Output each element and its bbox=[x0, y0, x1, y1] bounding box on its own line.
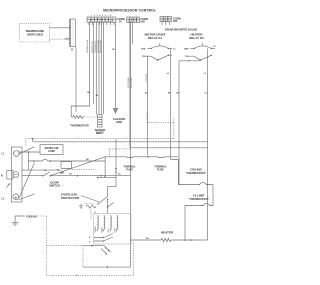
svg-text:FUSE: FUSE bbox=[157, 169, 164, 172]
wire K1 NO down bbox=[170, 49, 172, 160]
wire from J4 pin8 down to chassis ground bbox=[115, 22, 117, 108]
svg-text:RELAY K2: RELAY K2 bbox=[189, 36, 204, 40]
wire K2 common down bbox=[179, 60, 200, 184]
motor feed vertical bbox=[104, 157, 106, 177]
dashed link to motor bbox=[84, 203, 94, 205]
thermal fuse line horizontal bbox=[105, 156, 178, 158]
svg-text:1 2 3 4 5 6 7 8: 1 2 3 4 5 6 7 8 bbox=[91, 14, 112, 17]
membrane switch box bbox=[20, 23, 50, 42]
motor feed elbow bbox=[108, 186, 116, 196]
svg-text:MTR RELAY: MTR RELAY bbox=[127, 77, 130, 88]
start winding coil bbox=[86, 205, 96, 208]
motor windings bbox=[97, 216, 118, 232]
lamp row wire bbox=[28, 152, 105, 170]
ground arrow at terminal block bbox=[9, 183, 12, 185]
wire conn902 pin2 continues down bbox=[130, 22, 132, 148]
thermistor wire elbow bbox=[71, 106, 90, 117]
svg-text:THERMISTOR: THERMISTOR bbox=[70, 124, 88, 128]
svg-text:PROTECTOR: PROTECTOR bbox=[61, 196, 80, 200]
wire conn902 pin1 down bbox=[129, 22, 131, 148]
link vertical bbox=[130, 240, 132, 267]
svg-text:FUSE: FUSE bbox=[126, 169, 133, 172]
svg-text:1 2 3 4: 1 2 3 4 bbox=[129, 17, 138, 20]
svg-text:AUX: AUX bbox=[107, 228, 110, 233]
svg-text:HEATER: HEATER bbox=[161, 231, 174, 235]
thermal fuse 1 bbox=[126, 157, 134, 158]
heater element bbox=[161, 238, 171, 241]
wire from J4 pin5 down bbox=[100, 22, 102, 114]
svg-text:3 5 8 2 4 6 1 7: 3 5 8 2 4 6 1 7 bbox=[91, 17, 112, 20]
svg-text:THERMOSTAT: THERMOSTAT bbox=[186, 171, 206, 175]
connector CONN J4 bbox=[87, 14, 125, 25]
diagonal crossover wire bbox=[19, 163, 35, 199]
svg-text:5A61: 5A61 bbox=[96, 132, 102, 135]
wire from J4 pin2 down bbox=[93, 22, 95, 104]
svg-text:MAIN: MAIN bbox=[100, 227, 103, 233]
long dashed chassis line bbox=[26, 139, 174, 146]
wire conn902 pin2 down to thermal fuse line bbox=[132, 22, 134, 44]
thermistor element bbox=[71, 115, 84, 118]
svg-text:THERMISTOR: THERMISTOR bbox=[87, 39, 89, 53]
wire K1 common down bbox=[144, 56, 148, 155]
svg-text:START: START bbox=[94, 225, 97, 232]
stubs below conn 903 bbox=[162, 22, 170, 26]
wire from J4 pin3 down bbox=[95, 22, 97, 114]
svg-text:THERMOSTAT: THERMOSTAT bbox=[189, 197, 209, 201]
svg-text:LAMP: LAMP bbox=[48, 150, 55, 153]
dashed link to motor frame bbox=[46, 245, 83, 247]
wire from J4 pin4 down bbox=[98, 22, 100, 114]
chassis ground bottom left bbox=[15, 216, 25, 222]
diagonal feed to fuse line bbox=[50, 157, 105, 176]
relay K1 contacts bbox=[141, 43, 176, 61]
svg-text:RELAY K1: RELAY K1 bbox=[148, 36, 163, 40]
leader line bbox=[81, 196, 99, 203]
vertical from dashed line down bbox=[115, 139, 117, 187]
mid row wire bbox=[22, 169, 61, 171]
svg-text:SENSOR BAR: SENSOR BAR bbox=[100, 39, 103, 53]
svg-text:GND: GND bbox=[116, 120, 122, 124]
diagonal from L2 terminal bbox=[18, 194, 35, 200]
svg-text:NTE: NTE bbox=[141, 49, 146, 51]
lower motor row 2 bbox=[83, 266, 131, 268]
connector CONN 902 bbox=[127, 17, 149, 24]
svg-text:DRUM MOUNTED BULBS: DRUM MOUNTED BULBS bbox=[165, 28, 198, 32]
lower motor switch vertical dashed bbox=[82, 246, 84, 267]
motor switch dots bbox=[103, 237, 104, 238]
svg-text:SWITCHES: SWITCHES bbox=[27, 33, 43, 37]
relay K2 contacts bbox=[184, 43, 216, 61]
svg-text:MICROPROCESSOR CONTROL: MICROPROCESSOR CONTROL bbox=[103, 9, 156, 13]
wire K1 NO to thermostat column bbox=[171, 160, 179, 185]
wire L1 to lamp box bbox=[19, 151, 40, 153]
motor box bbox=[94, 214, 132, 245]
ground near overload bbox=[79, 204, 83, 209]
diagonal from L1 terminal bbox=[19, 147, 35, 154]
dashed stub bbox=[109, 149, 130, 157]
wire membrane to J1 solid bbox=[49, 27, 70, 29]
svg-text:RUN: RUN bbox=[114, 228, 116, 233]
svg-text:GROUND: GROUND bbox=[26, 216, 37, 219]
svg-text:903: 903 bbox=[173, 19, 178, 23]
neutral lug bbox=[7, 171, 13, 180]
wire from J4 pin1 down bbox=[89, 22, 91, 106]
spur with arrow bbox=[99, 177, 116, 179]
right vertical between thermostats bbox=[212, 185, 214, 206]
svg-text:TW/SW TXD: TW/SW TXD bbox=[92, 41, 94, 53]
water air lamp box bbox=[40, 145, 63, 155]
svg-text:CONSOLE LT: CONSOLE LT bbox=[95, 40, 97, 53]
wire K2 NO down bbox=[207, 49, 209, 241]
door switch bbox=[44, 172, 50, 176]
hi-limit thermostat row bbox=[185, 203, 213, 240]
dashed ground run bbox=[38, 216, 134, 275]
dashed ground path upper bbox=[147, 112, 174, 139]
bond mark bbox=[76, 275, 77, 276]
svg-text:N: N bbox=[1, 175, 3, 178]
thermistor dashed lead bbox=[84, 116, 97, 118]
upper feed line bbox=[131, 147, 208, 149]
drum light box bbox=[61, 162, 72, 169]
chassis ground arrow bbox=[113, 108, 119, 114]
svg-text:902: 902 bbox=[141, 20, 146, 24]
lamp row breaker arch bbox=[42, 159, 48, 161]
wire membrane to J1 dashed bbox=[49, 38, 65, 40]
svg-text:MTR DRV: MTR DRV bbox=[146, 73, 148, 82]
terminal block bbox=[11, 147, 22, 202]
neutral row with door switch bbox=[22, 175, 131, 177]
heater row bbox=[131, 239, 162, 241]
connector J1 bbox=[70, 19, 75, 51]
wire from J1 down bbox=[75, 47, 77, 112]
svg-text:SWITCH: SWITCH bbox=[49, 184, 60, 188]
connector CONN 903 bbox=[160, 16, 181, 23]
wire from J4 pin6 down bbox=[102, 22, 104, 114]
lower motor switch row 1 bbox=[83, 245, 104, 247]
ceiling thermostat row bbox=[178, 182, 213, 184]
centrifugal switch arm bbox=[98, 197, 108, 205]
sensor bars element bbox=[98, 115, 102, 128]
long solid line L1 feed bbox=[33, 139, 208, 142]
thermal fuse 2 bbox=[157, 157, 165, 158]
svg-text:SENSOR BAR: SENSOR BAR bbox=[97, 39, 100, 53]
